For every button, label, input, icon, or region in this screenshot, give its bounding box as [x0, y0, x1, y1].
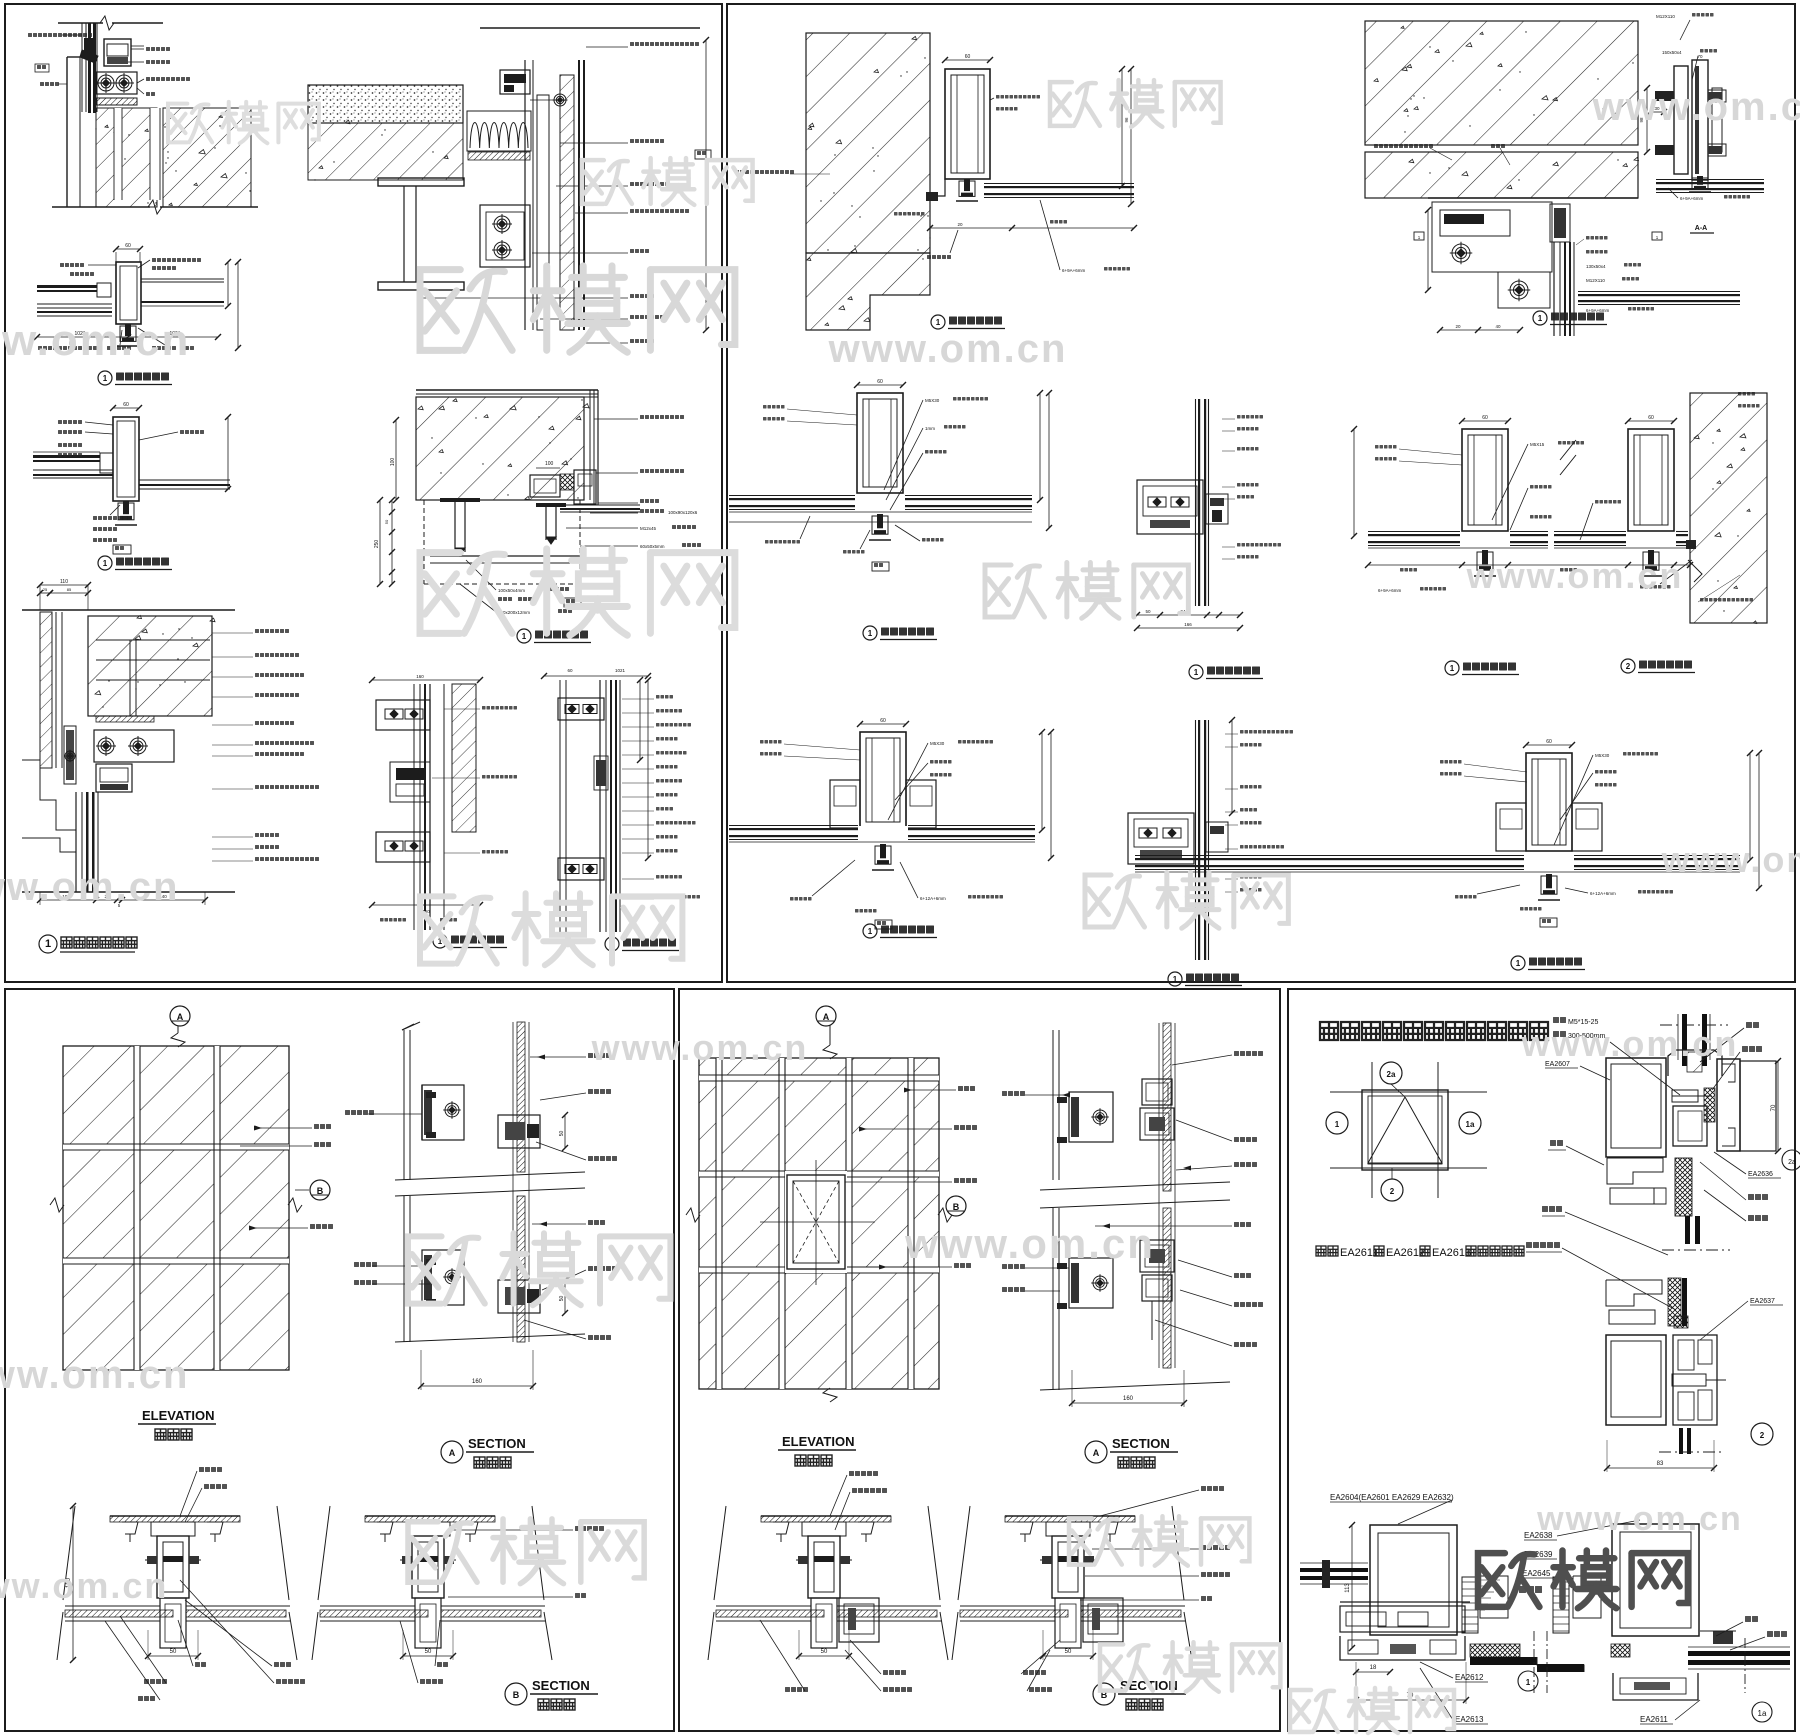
svg-text:20: 20 [1455, 324, 1461, 329]
BR d1 big frame [1370, 1525, 1457, 1635]
BR d2 mid break [1662, 1249, 1730, 1251]
svg-text:60: 60 [123, 402, 129, 408]
BL bottom section dim 50 [148, 1655, 198, 1657]
detail A3 bottom labels [38, 346, 97, 350]
svg-text:70: 70 [1697, 54, 1703, 59]
detail A3 mullion [116, 262, 141, 324]
svg-text:160: 160 [1123, 1396, 1134, 1402]
svg-text:60: 60 [965, 54, 971, 60]
svg-text:6+9A+6mm: 6+9A+6mm [1378, 588, 1402, 593]
detail B2 vertical mullion drop [1553, 242, 1555, 336]
detail B2 glass right [1578, 294, 1740, 296]
detail A7 verticals [413, 684, 415, 930]
BM bottom labels top [849, 1471, 878, 1476]
svg-text:160: 160 [416, 674, 424, 679]
detail A1 dark glazing pocket [84, 38, 96, 58]
detail B9 labels [1440, 760, 1462, 764]
BM bottom labels bottom [785, 1687, 808, 1692]
svg-text:M5X30: M5X30 [925, 398, 940, 403]
BR d2 bottom glass [1679, 1428, 1683, 1454]
svg-text:EA2636: EA2636 [1748, 1171, 1773, 1178]
detail A3 right glass [141, 278, 224, 280]
BL bottom labels right [575, 1526, 604, 1531]
BL SECTION A caption [441, 1441, 463, 1463]
detail B1 mullion [945, 59, 990, 61]
detail B3 hex bolts [1655, 91, 1674, 101]
BR d2 head cap profile [1668, 1050, 1722, 1076]
BM elevation member bands white [716, 1058, 722, 1389]
detail A2 mullion column [524, 60, 526, 330]
BR d1 sealant strip [1470, 1644, 1520, 1657]
detail B8 labels right [1240, 730, 1293, 734]
svg-text:1: 1 [1194, 668, 1199, 677]
BL SECTION B caption [505, 1683, 527, 1705]
svg-text:M12X110: M12X110 [1656, 14, 1675, 19]
detail B1 dim right [1121, 69, 1123, 186]
svg-text:60: 60 [567, 668, 573, 673]
BL bottom section dim 50 [403, 1655, 453, 1657]
svg-text:2a: 2a [1788, 1159, 1796, 1166]
BM window [785, 1171, 847, 1273]
detail A1 left labels [28, 33, 92, 37]
BL bottom section glass band [320, 1610, 428, 1617]
detail A3 bottom dim [37, 336, 218, 338]
svg-text:ELEVATION: ELEVATION [782, 1434, 854, 1449]
svg-text:SECTION: SECTION [1112, 1436, 1170, 1451]
detail A8 right labels [656, 695, 673, 699]
BM elevation mullions [715, 1058, 717, 1389]
svg-text:EA2637: EA2637 [1750, 1298, 1775, 1305]
svg-text:M5X15: M5X15 [1530, 442, 1545, 447]
detail A2 top line [480, 27, 700, 29]
BR key square [1362, 1090, 1448, 1170]
svg-text:6+12A+6mm: 6+12A+6mm [920, 896, 946, 901]
detail A2 stipple slab [308, 85, 463, 123]
detail A4 right glass [139, 479, 230, 481]
detail B7 plan mullion [860, 723, 906, 725]
BM bottom right labels [1201, 1486, 1224, 1491]
svg-text:70: 70 [1771, 1104, 1777, 1111]
detail A4 title [98, 556, 112, 570]
BR d1a sealant [1611, 1644, 1630, 1657]
detail B3 right labels [1738, 392, 1755, 396]
svg-text:A-A: A-A [1695, 225, 1707, 232]
detail A2 I-beam [378, 178, 464, 186]
svg-text:6+9A+6mm: 6+9A+6mm [1586, 308, 1610, 313]
detail B5 vertical glass detail [1198, 399, 1200, 606]
detail B6 labels [1375, 445, 1397, 449]
svg-text:www.om.cn: www.om.cn [1661, 839, 1800, 880]
detail A4 mullion [113, 407, 139, 409]
big dark logo watermark [1478, 1551, 1688, 1609]
svg-text:1: 1 [103, 374, 108, 383]
BL bottom section lower tube [1055, 1598, 1081, 1648]
svg-text:2a: 2a [1387, 1070, 1396, 1079]
BL bottom section lower tube [811, 1598, 837, 1648]
BR d2 dim 70 [1777, 1061, 1779, 1151]
BR d2 gasket profiles upper [1607, 1158, 1663, 1184]
svg-text:SECTION: SECTION [532, 1678, 590, 1693]
BL bottom section edges [958, 1506, 970, 1600]
detail B1 glass band right [984, 186, 1134, 188]
svg-text:M12X110: M12X110 [1586, 278, 1605, 283]
BL elevation horizontals [63, 1143, 289, 1145]
BM elevation labels [958, 1086, 975, 1091]
BL elevation mullion bands white [134, 1046, 140, 1370]
detail B1 title [931, 315, 945, 329]
svg-text:160: 160 [472, 1379, 483, 1385]
BR d1a frame [1612, 1524, 1699, 1636]
svg-text:250: 250 [374, 540, 380, 549]
svg-text:www.om.cn: www.om.cn [1592, 85, 1800, 129]
BL elevation break marks [171, 1033, 185, 1047]
detail B1 weep assembly [930, 179, 945, 196]
svg-text:60x50x5mm: 60x50x5mm [640, 544, 665, 549]
BL bottom labels bottom-right [437, 1662, 448, 1667]
BL bottom section main clamp [406, 1522, 450, 1536]
svg-text:50: 50 [1145, 609, 1151, 614]
BL bottom section glass band [65, 1610, 173, 1617]
detail A7 top dim [372, 679, 480, 681]
detail B3 dims left [1646, 88, 1648, 152]
svg-text:EA2645: EA2645 [1522, 1569, 1551, 1578]
detail A3 upper labels [60, 263, 84, 267]
svg-text:www.om.cn: www.om.cn [0, 865, 179, 909]
BR d1a bottom tray [1613, 1673, 1698, 1700]
BM SECTION A caption [1085, 1441, 1107, 1463]
detail A6 stone strip [40, 612, 52, 768]
detail A2 firestop hatch strip [468, 152, 530, 160]
detail A2 glass outer [578, 60, 580, 330]
BL section A glass strip [517, 1022, 525, 1172]
svg-text:1: 1 [1173, 975, 1178, 984]
svg-text:1: 1 [1335, 1120, 1340, 1129]
BR d2 circle 2 [1751, 1423, 1773, 1445]
BM circle B [946, 1196, 966, 1216]
BL section A top bracket [422, 1085, 464, 1140]
detail B6 dims [1353, 429, 1355, 536]
BL bottom labels bottom-left [195, 1662, 206, 1667]
detail A7 bracket boxes [376, 700, 430, 730]
detail A4 right label [180, 430, 204, 434]
detail B4 labels [763, 405, 785, 409]
BL bottom section main clamp [802, 1522, 846, 1536]
BM section A left plates [1052, 1030, 1054, 1180]
detail A8 right dim [647, 680, 649, 858]
svg-text:60: 60 [1648, 415, 1654, 421]
detail B8 vertical glass [1198, 720, 1200, 960]
detail B2 concrete big [1365, 21, 1638, 145]
detail A4 right dim [227, 417, 229, 489]
BL section A small bolts column [426, 1092, 436, 1098]
BR d2 glass mid [1685, 1216, 1690, 1244]
detail A2 top bracket [500, 70, 530, 94]
detail A3 title [98, 371, 112, 385]
BM SECTION B caption [1093, 1683, 1115, 1705]
detail B2 title [1533, 311, 1547, 325]
BR d2 gasket profiles lower [1606, 1280, 1662, 1306]
detail A5 window glass to right [560, 504, 640, 506]
detail A7 right hatch strip [452, 684, 476, 832]
detail A6 title big [39, 935, 57, 953]
detail B1 right glass labels [996, 95, 1040, 99]
BR d2 right labels [1746, 1022, 1759, 1028]
detail A1 wall hatch [96, 108, 157, 207]
detail A5 dims left [379, 500, 381, 584]
BL bottom section top plate [365, 1515, 495, 1517]
detail A6 top line [22, 609, 235, 611]
detail A2 stone cladding strip [560, 75, 574, 330]
detail A8 title [605, 937, 619, 951]
svg-text:1021: 1021 [615, 668, 626, 673]
BM elevation grid frame [699, 1058, 939, 1389]
svg-text:EA2613: EA2613 [1455, 1715, 1484, 1724]
detail A5 right labels [640, 415, 684, 419]
svg-text:B: B [513, 1690, 520, 1700]
svg-text:1: 1 [936, 318, 941, 327]
svg-text:50: 50 [559, 1296, 565, 1302]
BL section A dim 160 [421, 1385, 533, 1387]
BL bottom section glass band [960, 1610, 1068, 1617]
BR d2 top centerline [1660, 1024, 1728, 1026]
detail A2 right dim line [705, 40, 707, 330]
svg-text:60: 60 [1482, 415, 1488, 421]
BM section A left labels [1002, 1091, 1025, 1096]
svg-text:1mm: 1mm [925, 426, 935, 431]
svg-text:60: 60 [880, 718, 886, 724]
BM section A top bracket [1069, 1092, 1113, 1142]
BL bottom section dim 50 [1043, 1655, 1093, 1657]
detail A6 bottom line and dims [22, 891, 235, 893]
svg-text:1: 1 [868, 629, 873, 638]
svg-text:50: 50 [821, 1649, 828, 1655]
BL bottom section hanger bolts [377, 1522, 393, 1534]
svg-text:2: 2 [1390, 1187, 1395, 1196]
detail A8 clamp mid [596, 760, 606, 786]
detail B2 side tick symbols [1414, 232, 1424, 240]
svg-text:M5X30: M5X30 [930, 741, 945, 746]
BL bottom section hanger bolts [1017, 1522, 1033, 1534]
detail B3 plates [1650, 111, 1664, 113]
svg-text:EA2611: EA2611 [1640, 1715, 1668, 1724]
BL bottom section edges [318, 1506, 330, 1600]
svg-text:www.om.cn: www.om.cn [828, 327, 1068, 371]
BR d2 mid screw plate [1672, 1090, 1698, 1102]
svg-text:1: 1 [45, 938, 51, 950]
BR d1 connector ladder [1462, 1577, 1478, 1633]
BL bottom section main clamp [1046, 1522, 1090, 1536]
BM elevation horizontals [699, 1074, 939, 1076]
BL elevation labels [314, 1124, 331, 1129]
panel borders [5, 4, 722, 982]
BL bottom section edges [714, 1506, 726, 1600]
BL bottom section lower tube [415, 1598, 441, 1648]
svg-text:www.om.cn: www.om.cn [904, 1220, 1155, 1267]
detail A6 concrete block [88, 616, 212, 716]
BR d1a wedge [1573, 1576, 1601, 1618]
detail A1 wall slots [114, 108, 122, 200]
svg-text:100x50x4mm: 100x50x4mm [498, 588, 525, 593]
detail A7 bottom dim [372, 904, 480, 906]
BR panel title [1320, 1022, 1548, 1040]
detail B5 left box [1137, 480, 1203, 534]
detail B8 dim right [1231, 720, 1233, 813]
detail A4 left glass [33, 455, 100, 458]
detail B4 bottom dim [729, 521, 1032, 523]
detail B1 concrete bottom step [806, 253, 930, 330]
BR d1a ladder [1553, 1577, 1569, 1633]
svg-text:1: 1 [1538, 314, 1543, 323]
detail B6 mullion left [1462, 420, 1508, 422]
detail A2 right labels [630, 42, 699, 46]
svg-text:50: 50 [1065, 1649, 1072, 1655]
BR d1 wedge [1480, 1576, 1508, 1618]
svg-text:SECTION: SECTION [468, 1436, 526, 1451]
BR key diagram lines [1330, 1091, 1487, 1093]
svg-text:25: 25 [43, 587, 48, 592]
svg-text:www.om.cn: www.om.cn [0, 1565, 168, 1606]
BL bottom section top plate [1005, 1515, 1135, 1517]
detail A6 mullion vertical [75, 792, 77, 892]
detail B2 dims [1427, 210, 1429, 290]
detail A1 right labels [146, 47, 170, 51]
svg-text:1a: 1a [1758, 1709, 1767, 1718]
svg-text:83: 83 [1657, 1461, 1664, 1467]
svg-text:www.om.cn: www.om.cn [1466, 555, 1684, 596]
detail B2 assembly below [1428, 197, 1638, 199]
BL bottom labels top [199, 1467, 222, 1472]
detail A1 bracket box [104, 39, 131, 66]
detail A3 clamp [125, 324, 131, 336]
svg-text:6+12A+6mm: 6+12A+6mm [1590, 891, 1616, 896]
BR d2 lower frame left [1606, 1335, 1666, 1425]
BR d2 mid tube [1673, 1106, 1707, 1146]
detail A3 top dim [116, 248, 140, 250]
detail A4 left labels [58, 420, 82, 424]
BL bottom section hanger bolts [122, 1522, 138, 1534]
BL circle B [310, 1180, 330, 1200]
BL bottom section hanger bolts [773, 1522, 789, 1534]
BR key triangle [1368, 1097, 1442, 1163]
svg-text:EA2612: EA2612 [1386, 1247, 1425, 1259]
svg-text:ELEVATION: ELEVATION [142, 1408, 214, 1423]
BL bottom section top plate [110, 1515, 240, 1517]
detail B5 title [1189, 665, 1203, 679]
svg-text:18: 18 [1370, 1665, 1377, 1671]
BM circle A [816, 1006, 836, 1026]
detail A7 title [433, 934, 447, 948]
svg-text:1a: 1a [1466, 1120, 1475, 1129]
BL bottom section main clamp [151, 1522, 195, 1536]
detail A6 left small parts [66, 730, 74, 780]
detail B2 labels inside [1374, 144, 1433, 148]
svg-text:1: 1 [522, 632, 527, 641]
detail A6 lower-left steps [22, 760, 76, 830]
detail A6 top dims [40, 584, 88, 586]
svg-text:www.om.cn: www.om.cn [0, 316, 190, 365]
BR d2 top left frame [1606, 1058, 1666, 1157]
svg-text:110: 110 [60, 579, 68, 585]
BR d2 top glass [1682, 1014, 1687, 1066]
svg-text:1: 1 [1516, 959, 1521, 968]
detail A2 hatched slab [308, 123, 463, 180]
detail A5 angle steel [430, 555, 580, 557]
detail A2 fire stop coil [470, 123, 528, 149]
detail A2 connection bracket [480, 205, 530, 267]
svg-text:EA2604(EA2601 EA2629 EA2632): EA2604(EA2601 EA2629 EA2632) [1330, 1493, 1454, 1502]
svg-text:166: 166 [1184, 622, 1192, 627]
svg-text:A: A [1093, 1448, 1100, 1458]
svg-text:M12x45: M12x45 [640, 526, 657, 531]
detail B5 labels right [1237, 415, 1263, 419]
BL section A verticals [402, 1022, 420, 1030]
detail B2 small labels [1586, 236, 1608, 240]
svg-text:2: 2 [1626, 662, 1631, 671]
svg-text:1: 1 [1450, 664, 1455, 673]
detail A6 right leader labels [255, 629, 289, 633]
BR d2 top right frame [1717, 1059, 1740, 1151]
svg-text:1: 1 [1526, 1678, 1531, 1687]
BL bottom section lower tube [160, 1598, 186, 1648]
detail A1 mullion glass [81, 23, 83, 112]
BL section A break lines [395, 1172, 585, 1180]
BR key circle 2 [1381, 1179, 1403, 1201]
detail A8 bracket boxes [558, 698, 604, 720]
BR d2 right pane [1740, 1061, 1776, 1151]
BL section A bottom bracket [422, 1250, 464, 1305]
BL elevation mullions [133, 1046, 135, 1370]
detail A5 anchor 2 [536, 503, 566, 507]
detail A2 top small bolt [553, 93, 568, 108]
detail A3 left glass lower [37, 303, 112, 305]
BM section A break lines [1040, 1182, 1230, 1190]
svg-text:1: 1 [868, 927, 873, 936]
detail A6 embed plate [96, 716, 154, 722]
BR d1a break dashdot [1533, 1631, 1535, 1693]
svg-text:150x50x4: 150x50x4 [1662, 50, 1682, 55]
svg-text:50: 50 [559, 1131, 565, 1137]
detail A5 right edge [589, 390, 591, 500]
BR d1 dims 18 70 [1356, 1671, 1390, 1673]
light watermarks [420, 266, 735, 352]
svg-text:50: 50 [384, 519, 389, 524]
BR d2 glass lower [1682, 1278, 1687, 1326]
BR d2 lower mullion profiles [1673, 1335, 1717, 1425]
detail A1 anchor plate hatch [96, 98, 137, 105]
detail B6 mullion right [1628, 420, 1674, 422]
BR d1a glass right [1688, 1651, 1790, 1656]
detail B6 wall right [1690, 393, 1767, 623]
detail A5 anchor 1 [440, 498, 480, 502]
BM section A sash frames bottom [1140, 1240, 1174, 1272]
BL bottom section edges [63, 1506, 75, 1600]
svg-text:100x90x120x6: 100x90x120x6 [668, 510, 698, 515]
svg-text:1: 1 [103, 559, 108, 568]
svg-text:EA2612: EA2612 [1455, 1673, 1484, 1682]
BR key circle 1a [1459, 1112, 1481, 1134]
detail A5 title [517, 629, 531, 643]
BR d1a gasket bits [1713, 1631, 1733, 1644]
detail B8 title [1168, 972, 1182, 986]
detail B5 clamp right [1210, 498, 1224, 506]
detail A1 bolt pair [96, 72, 137, 94]
detail A3 left glass upper [37, 285, 97, 288]
svg-text:6+9A+6mm: 6+9A+6mm [1062, 268, 1086, 273]
svg-text:60: 60 [1546, 739, 1552, 745]
svg-text:6+9A+6mm: 6+9A+6mm [1680, 196, 1704, 201]
BR d2 sealant column upper [1675, 1158, 1692, 1216]
BR d1 bottom profile [1340, 1601, 1470, 1603]
